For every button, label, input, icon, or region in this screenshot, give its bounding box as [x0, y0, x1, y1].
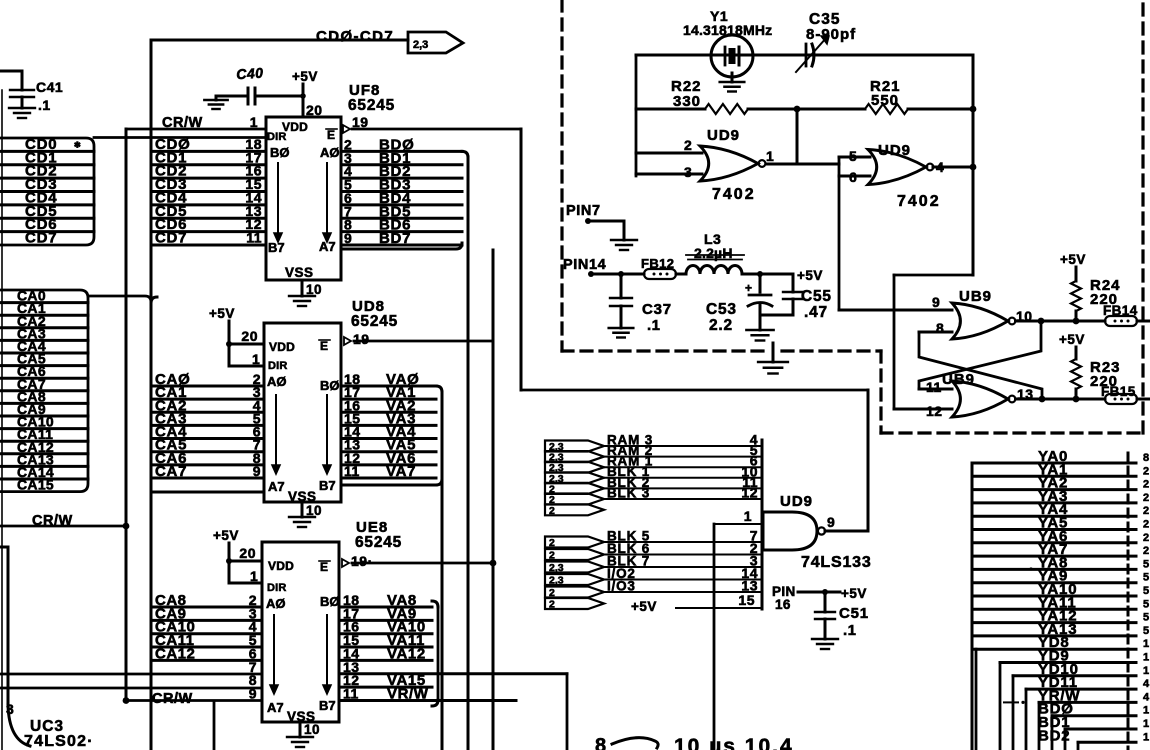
svg-text:A7: A7	[267, 700, 284, 715]
svg-text:8: 8	[936, 320, 944, 336]
svg-text:1: 1	[744, 508, 752, 524]
svg-text:BD7: BD7	[379, 230, 411, 247]
svg-text:CR/W: CR/W	[152, 691, 193, 707]
svg-text:8-90pf: 8-90pf	[806, 26, 856, 43]
svg-text:BLK 3: BLK 3	[607, 485, 650, 500]
svg-text:CD7: CD7	[155, 230, 187, 247]
svg-text:B7: B7	[319, 698, 336, 713]
svg-text:3: 3	[684, 164, 692, 180]
svg-text:20: 20	[306, 102, 323, 118]
svg-text:65245: 65245	[351, 313, 398, 330]
svg-text:C40: C40	[236, 64, 264, 82]
svg-text:2,3: 2,3	[549, 562, 564, 574]
svg-text:1: 1	[250, 568, 258, 584]
svg-text:19·: 19·	[351, 553, 373, 569]
svg-text:2: 2	[1143, 532, 1149, 544]
svg-text:5: 5	[1143, 585, 1149, 597]
svg-text:UD9: UD9	[878, 142, 911, 159]
svg-text:1: 1	[1143, 731, 1149, 743]
svg-text:8: 8	[1143, 452, 1149, 464]
svg-text:65245: 65245	[348, 97, 395, 114]
svg-text:2: 2	[1143, 545, 1149, 557]
svg-text:PIN14: PIN14	[563, 257, 606, 273]
svg-text:2: 2	[1143, 479, 1149, 491]
svg-text:5: 5	[1143, 625, 1149, 637]
svg-text:CR/W: CR/W	[32, 513, 73, 529]
svg-text:1: 1	[766, 148, 774, 164]
svg-text:CA7: CA7	[155, 463, 187, 480]
svg-text:8: 8	[595, 735, 607, 750]
svg-text:4: 4	[1143, 691, 1150, 703]
svg-text:VSS: VSS	[285, 265, 314, 280]
svg-text:1: 1	[1143, 652, 1149, 664]
svg-text:1: 1	[1143, 718, 1149, 730]
svg-text:VDD: VDD	[269, 340, 295, 354]
svg-text:11: 11	[343, 685, 359, 701]
svg-text:VR/W: VR/W	[387, 685, 429, 702]
svg-text:DIR: DIR	[268, 360, 288, 372]
svg-text:5: 5	[849, 148, 857, 164]
svg-text:C51: C51	[839, 605, 869, 622]
svg-text:74LS133: 74LS133	[801, 554, 872, 571]
svg-text:15: 15	[738, 592, 755, 608]
svg-text:9: 9	[827, 514, 835, 530]
svg-text:10 µs 10.4: 10 µs 10.4	[674, 735, 794, 750]
svg-text:11: 11	[926, 379, 942, 395]
svg-text:UB9: UB9	[959, 288, 992, 305]
svg-text:1: 1	[252, 351, 260, 367]
svg-text:C37: C37	[642, 301, 672, 318]
svg-text:2.2µH: 2.2µH	[694, 245, 733, 261]
svg-text:AØ: AØ	[266, 596, 286, 611]
svg-text:9: 9	[344, 230, 352, 246]
svg-text:550: 550	[871, 92, 899, 109]
svg-text:E: E	[320, 339, 329, 353]
svg-text:UD9: UD9	[707, 127, 740, 144]
svg-text:C41: C41	[36, 79, 63, 95]
svg-text:VDD: VDD	[268, 559, 294, 573]
svg-text:AØ: AØ	[267, 374, 287, 389]
svg-text:C53: C53	[706, 301, 737, 318]
svg-text:B7: B7	[319, 478, 336, 493]
svg-text:CR/W: CR/W	[162, 115, 203, 131]
svg-text:2: 2	[549, 505, 555, 517]
svg-text:19: 19	[353, 331, 370, 347]
svg-text:.47: .47	[804, 304, 828, 321]
svg-text:2,3: 2,3	[549, 575, 564, 587]
svg-text:BD2: BD2	[1038, 727, 1070, 744]
svg-text:✱: ✱	[74, 140, 81, 149]
svg-text:4: 4	[1143, 678, 1150, 690]
svg-text:2: 2	[549, 599, 555, 611]
svg-text:20: 20	[241, 328, 258, 344]
svg-text:+5V: +5V	[292, 69, 318, 84]
svg-text:14.31818MHz: 14.31818MHz	[683, 22, 772, 38]
svg-text:2: 2	[549, 537, 555, 549]
svg-text:+5V: +5V	[1059, 332, 1085, 347]
svg-text:BØ: BØ	[270, 145, 290, 160]
svg-text:2: 2	[1143, 505, 1149, 517]
svg-text:+: +	[745, 281, 753, 295]
svg-text:330: 330	[673, 93, 701, 110]
svg-text:+5V: +5V	[1060, 252, 1086, 267]
svg-text:6: 6	[849, 169, 857, 185]
svg-text:B7: B7	[268, 240, 285, 255]
svg-text:9: 9	[253, 463, 261, 479]
svg-text:2,3: 2,3	[413, 39, 428, 51]
svg-text:7402: 7402	[897, 193, 941, 210]
svg-text:BØ: BØ	[320, 594, 340, 609]
svg-text:2: 2	[684, 137, 692, 153]
svg-text:1: 1	[1143, 705, 1149, 717]
svg-text:1: 1	[1143, 638, 1149, 650]
svg-text:2: 2	[1143, 465, 1149, 477]
svg-text:74LS02·: 74LS02·	[24, 733, 94, 750]
svg-text:9: 9	[249, 685, 257, 701]
svg-text:DIR: DIR	[267, 131, 287, 143]
svg-text:5: 5	[1143, 572, 1149, 584]
svg-text:3: 3	[6, 701, 14, 717]
svg-text:10: 10	[306, 503, 322, 518]
svg-text:A7: A7	[268, 479, 285, 494]
svg-text:1: 1	[1143, 665, 1149, 677]
svg-text:20: 20	[239, 545, 256, 561]
svg-text:2.2: 2.2	[709, 317, 733, 334]
svg-text:CA12: CA12	[155, 645, 195, 662]
svg-text:VA7: VA7	[386, 463, 416, 480]
svg-text:E: E	[327, 128, 336, 142]
svg-text:CDØ-CD7: CDØ-CD7	[316, 28, 394, 45]
svg-text:7402: 7402	[712, 186, 756, 203]
svg-text:.1: .1	[843, 622, 857, 639]
svg-text:2: 2	[1143, 492, 1149, 504]
svg-text:+5V: +5V	[213, 528, 239, 543]
svg-text:5: 5	[1143, 612, 1149, 624]
svg-text:.1: .1	[647, 317, 661, 334]
svg-text:10: 10	[306, 282, 322, 297]
svg-text:UD9: UD9	[780, 493, 813, 510]
svg-text:VA12: VA12	[387, 645, 426, 662]
svg-text:I/O3: I/O3	[607, 578, 636, 593]
svg-text:E: E	[320, 560, 329, 574]
svg-text:12: 12	[926, 403, 943, 419]
svg-text:11: 11	[344, 463, 360, 479]
svg-text:16: 16	[775, 597, 791, 612]
svg-text:65245: 65245	[355, 534, 402, 551]
svg-text:C55: C55	[801, 288, 832, 305]
svg-text:AØ: AØ	[320, 145, 340, 160]
svg-text:2: 2	[549, 550, 555, 562]
svg-text:+5V: +5V	[209, 306, 235, 321]
svg-text:BØ: BØ	[320, 378, 340, 393]
svg-text:PIN7: PIN7	[566, 203, 601, 219]
svg-text:DIR: DIR	[267, 582, 287, 594]
svg-text:10: 10	[304, 722, 320, 737]
svg-text:+5V: +5V	[841, 586, 867, 601]
svg-text:CD7: CD7	[25, 230, 57, 247]
svg-text:5: 5	[1143, 598, 1149, 610]
svg-text:1: 1	[250, 114, 258, 130]
svg-text:CA15: CA15	[17, 477, 54, 493]
svg-text:9: 9	[932, 294, 940, 310]
svg-text:5: 5	[1143, 558, 1149, 570]
svg-text:.1: .1	[38, 97, 51, 113]
svg-text:+5V: +5V	[631, 599, 657, 614]
svg-text:+5V: +5V	[797, 268, 823, 283]
svg-text:2: 2	[1143, 519, 1149, 531]
svg-text:11: 11	[246, 230, 262, 246]
svg-text:12: 12	[741, 485, 758, 501]
